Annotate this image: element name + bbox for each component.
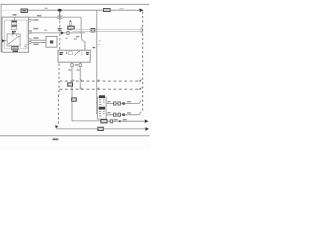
actuator M1 glyph: [99, 100, 105, 105]
K36 bottom pin right: [79, 64, 82, 67]
wire ground path 2: [56, 128, 98, 130]
hook row B right: [139, 87, 142, 89]
fuse F2 element arc: [81, 38, 85, 42]
connector label on wire 72 upper: [68, 83, 73, 86]
connector label on wire 72 lower: [72, 98, 77, 101]
pin text C2: [93, 47, 96, 49]
relay K1 switch blade: [9, 36, 19, 44]
relay internal marks: [13, 34, 17, 36]
K36 bottom pin left: [71, 64, 74, 67]
harness boundary dashed vertical lower: [57, 64, 60, 124]
M1 left pin tick: [96, 101, 97, 103]
tick right of sense wire: [97, 41, 101, 45]
shielded cable vertical: [59, 12, 61, 21]
fuse F1 cap: [12, 21, 17, 23]
wire label below: [34, 19, 38, 21]
relay terminal left: [8, 43, 9, 44]
splice dot M2: [122, 113, 124, 116]
wire ignition feed top: [29, 16, 82, 18]
wire M1 output: [106, 103, 137, 105]
wire label lower: [33, 43, 38, 45]
wire label: [107, 112, 110, 114]
jumper component above: [70, 22, 72, 26]
dashed wire row A: [60, 80, 142, 82]
actuator M2 header label: [99, 107, 105, 110]
wire label G1: [114, 119, 127, 121]
wire ground path corner: [72, 120, 101, 122]
sense wire vertical: [96, 10, 98, 113]
ground label box: [101, 120, 107, 123]
wire gauge labels under bus: [66, 37, 77, 40]
module right boundary dashed: [142, 12, 144, 113]
wire after label 2: [103, 128, 146, 130]
fuse block module label A36: [13, 14, 17, 16]
boundary arrow on wire: [61, 31, 64, 34]
relay terminal right: [18, 36, 19, 37]
fuse F1 body: [12, 21, 17, 25]
double wire lower: [73, 31, 142, 33]
relay K1 box: [7, 34, 20, 46]
harness boundary arrow end: [55, 125, 58, 129]
actuator M2 glyph: [99, 111, 105, 116]
K36 left designator text: [59, 53, 63, 55]
fan feed label box: [91, 29, 95, 32]
splice S1: [58, 9, 62, 12]
arrow right G2: [145, 127, 149, 131]
wire label upper: [33, 37, 38, 39]
M2 left pin tick: [96, 113, 97, 115]
wire label: [107, 101, 110, 103]
crossing tick 80 A: [81, 80, 82, 82]
arrow into relay: [2, 39, 5, 42]
wire gauge label above bus: [44, 7, 48, 9]
crossing hook 97 B: [97, 88, 99, 90]
wire fuse to relay: [14, 17, 16, 34]
frame left border: [0, 4, 2, 52]
wire B+ feed faint segment: [2, 9, 22, 11]
wire into relay from left: [1, 40, 7, 42]
wire main horizontal bus: [27, 9, 140, 11]
hook row A right: [139, 79, 142, 81]
hook into module M2 wire: [137, 112, 140, 115]
crossing tick 80 B: [81, 88, 82, 90]
pin text bottom right: [24, 45, 27, 47]
connector label X1: [21, 9, 27, 12]
internal stub right: [81, 51, 83, 56]
splice dot M1: [122, 102, 124, 105]
wire label 2: [127, 101, 131, 103]
relay designator label: [12, 46, 18, 50]
pins into right module: [141, 28, 144, 32]
inline connector M2: [114, 113, 116, 116]
wire label: [33, 28, 38, 30]
K36 right designator text: [86, 53, 89, 55]
wire label right of S22: [120, 8, 124, 10]
crossing hook 97 A: [97, 79, 99, 81]
frame bottom border: [0, 135, 150, 137]
frame top border: [1, 3, 150, 5]
hook into module M1 wire: [137, 100, 140, 103]
relay load pins row2: [29, 39, 31, 41]
twisted lead crossing ticks: [57, 16, 62, 18]
page label under border: [53, 138, 59, 140]
connector pin C1 on fuse block edge: [29, 20, 32, 22]
actuator M1 header label: [99, 95, 105, 98]
internal pin stub: [66, 50, 68, 53]
inline connector M1: [114, 102, 116, 105]
compressor clutch box: [46, 36, 57, 47]
internal switch: [74, 51, 79, 55]
actuator M2 box: [97, 109, 106, 119]
pin text: [30, 19, 34, 21]
wire pair to clutch upper: [31, 39, 46, 41]
fuse F2 stub right: [84, 42, 86, 51]
wire label on K36 output left: [68, 69, 71, 71]
wire stub right pin: [79, 62, 81, 89]
fuse block outer box: [2, 17, 29, 52]
actuator M1 box: [97, 97, 106, 107]
clutch coil glyph: [50, 40, 53, 43]
pin number text: [75, 64, 79, 66]
inline pin: [67, 31, 69, 34]
cable connector marks: [58, 29, 62, 31]
double wire upper: [73, 28, 142, 30]
wire relay to fuse F2: [32, 32, 86, 34]
wire label 2: [127, 112, 131, 114]
arrow into right module: [140, 8, 144, 12]
wire pair to clutch lower: [31, 41, 46, 43]
wire stub left pin: [71, 62, 73, 121]
wire tick label: [44, 29, 47, 31]
fuse F2 stub left: [80, 17, 82, 37]
wire label on K36 output right: [77, 69, 80, 71]
ground text on box border: [13, 50, 18, 52]
fuse F2 rating text: [76, 36, 80, 38]
relay output pins row1: [29, 31, 30, 34]
connector label X50: [68, 26, 74, 29]
wire after label: [107, 120, 145, 122]
ground label box 2: [98, 127, 103, 130]
wire M2 output: [106, 114, 137, 116]
wire label above: [37, 15, 41, 17]
fuse label F10: [12, 32, 16, 33]
splice label S22: [104, 8, 111, 11]
fuse element lower body: [12, 25, 17, 29]
junction block K36 box: [58, 50, 90, 62]
fuse block inner box: [5, 20, 27, 49]
dashed wire row B: [60, 88, 142, 90]
inline connector G1: [110, 120, 112, 123]
internal resistor: [68, 52, 72, 55]
splice dot G1: [119, 120, 121, 122]
crossing tick 72 A: [73, 80, 74, 82]
arrow right G1: [145, 119, 149, 123]
